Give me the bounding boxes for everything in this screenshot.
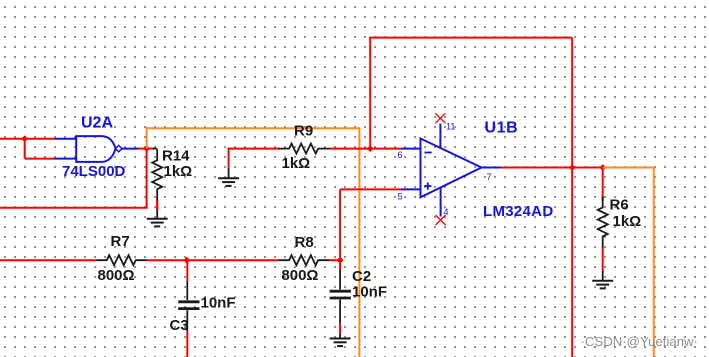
wire: pin 5 riser from J4 xyxy=(339,189,341,261)
wire: feedback vertical J2 up to top loop xyxy=(369,38,371,150)
wire: y=208 back to left edge xyxy=(0,207,148,209)
op-amp minus sign xyxy=(425,152,432,154)
wire: C3 top red stub xyxy=(186,260,188,281)
resistor R14 xyxy=(152,149,162,200)
no-connect X pin 4 xyxy=(436,215,446,225)
svg-text:4: 4 xyxy=(444,207,449,217)
op-amp V+ pin 11 vertical xyxy=(439,124,441,149)
svg-text:10nF: 10nF xyxy=(352,284,387,301)
svg-text:C3: C3 xyxy=(170,317,189,334)
svg-text:U2A: U2A xyxy=(81,115,113,132)
wire orange: J1 up xyxy=(146,127,148,148)
NAND gate U2A body xyxy=(76,136,115,162)
op-amp V- pin 4 vertical xyxy=(440,188,442,217)
NAND output pin xyxy=(122,148,138,150)
svg-text:R7: R7 xyxy=(111,233,130,250)
wire: NAND output to junction J1 xyxy=(138,148,148,150)
wire: J1 down to y=208 xyxy=(146,148,148,208)
svg-text:5: 5 xyxy=(398,192,403,202)
wire: R9 right red to J2 xyxy=(329,148,370,150)
svg-text:11: 11 xyxy=(446,122,455,132)
op-amp plus sign xyxy=(424,185,431,187)
wire: R7 net from left edge xyxy=(0,259,96,261)
wire orange: down x=359 to bottom edge xyxy=(358,127,360,357)
resistor R6 xyxy=(598,196,608,247)
wire: input branch to NAND pin 2 xyxy=(25,158,55,160)
wire: R6 bottom red xyxy=(602,247,604,270)
wire: R14 bottom red stub xyxy=(156,200,158,211)
wire: J1 jog to R14 top xyxy=(147,148,154,150)
svg-text:1kΩ: 1kΩ xyxy=(164,163,193,180)
wire: C3 bottom red to bottom edge xyxy=(186,332,188,357)
wire: R9 ground corner horizontal xyxy=(228,148,230,169)
svg-text:·CSDN·@Yuetianw·: ·CSDN·@Yuetianw· xyxy=(581,334,698,349)
op-amp output pin 7 stub xyxy=(482,167,502,169)
wire: R8 right red to J4 xyxy=(330,259,342,261)
op-amp pin 6 stub xyxy=(402,148,421,150)
svg-text:7: 7 xyxy=(487,172,492,182)
NAND output bubble xyxy=(116,145,122,151)
resistor R8 xyxy=(279,255,330,265)
svg-text:74LS00D: 74LS00D xyxy=(62,163,126,180)
wire: C2 bottom red stub xyxy=(339,323,341,333)
svg-text:R8: R8 xyxy=(295,234,314,251)
op-amp U1B triangle xyxy=(421,139,482,198)
ground for C2 xyxy=(339,333,341,338)
wire: J2 to op-amp pin 6 xyxy=(370,148,401,150)
wire orange: output to right vertical xyxy=(603,167,654,169)
svg-text:1kΩ: 1kΩ xyxy=(613,213,642,230)
node J3: R7/C3 junction xyxy=(183,257,190,264)
wire: R6 top red xyxy=(602,168,604,202)
no-connect X pin 11 xyxy=(435,113,445,123)
wire: right vertical x=572 top loop down to bottom edge xyxy=(571,38,573,357)
node J4: R8/C2 junction xyxy=(337,257,344,264)
svg-text:1kΩ: 1kΩ xyxy=(282,155,311,172)
svg-text:R9: R9 xyxy=(294,123,313,140)
node: output/R6 junction xyxy=(599,164,606,171)
wire: R14 ground red stub xyxy=(156,200,158,210)
node J2: inverting input junction xyxy=(367,145,374,152)
wire orange: top horizontal to x=359 xyxy=(146,127,360,129)
svg-text:10nF: 10nF xyxy=(201,295,236,312)
NAND pin 1 xyxy=(55,138,77,140)
svg-text:LM324AD: LM324AD xyxy=(483,203,553,220)
wire: J3 to R8 left xyxy=(187,259,279,261)
capacitor C3 xyxy=(186,281,188,300)
wire: input net left edge to NAND pin 1 xyxy=(0,138,55,140)
wire: R9 left red xyxy=(228,148,280,150)
svg-text:C2: C2 xyxy=(352,268,371,285)
wire: top loop horizontal xyxy=(369,37,572,39)
svg-text:R6: R6 xyxy=(610,197,629,214)
svg-text:800Ω: 800Ω xyxy=(98,267,135,284)
wire: R7 right to J3 xyxy=(147,259,187,261)
ground for R14 xyxy=(156,210,158,219)
wire: op-amp output red xyxy=(501,167,602,169)
wire orange: right vertical down to bottom edge xyxy=(653,167,655,357)
ground for R6 xyxy=(602,270,604,281)
op-amp pin 5 stub xyxy=(402,188,421,190)
ground for R9 xyxy=(228,168,230,178)
wire: C2 top red stub xyxy=(339,260,341,269)
node J1: NAND output junction xyxy=(143,145,150,152)
capacitor C2 xyxy=(339,269,341,289)
node: output/top-loop junction xyxy=(569,164,576,171)
svg-text:U1B: U1B xyxy=(485,120,519,137)
wire: input branch vertical xyxy=(24,138,26,159)
resistor R7 xyxy=(96,255,147,265)
svg-text:800Ω: 800Ω xyxy=(281,267,318,284)
NAND pin 2 xyxy=(55,158,77,160)
svg-text:6: 6 xyxy=(398,150,403,160)
node: input junction xyxy=(21,135,28,142)
resistor R9 xyxy=(279,144,330,154)
wire: pin 5 horizontal xyxy=(340,188,401,190)
